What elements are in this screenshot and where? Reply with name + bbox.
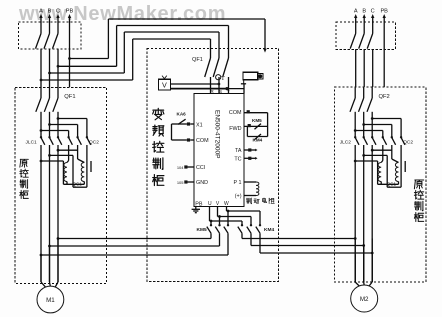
svg-text:FWD: FWD (229, 126, 241, 132)
svg-text:PB: PB (380, 9, 388, 15)
svg-text:PB: PB (195, 201, 203, 207)
svg-text:104: 104 (177, 165, 184, 170)
svg-text:GND: GND (196, 180, 208, 186)
svg-text:M2: M2 (360, 296, 369, 303)
svg-text:T: T (221, 75, 225, 82)
svg-text:M1: M1 (46, 297, 55, 304)
svg-text:QC2: QC2 (403, 140, 413, 146)
svg-text:QC1: QC1 (387, 182, 397, 187)
svg-text:TA: TA (235, 148, 242, 154)
svg-text:CCI: CCI (196, 165, 205, 171)
svg-text:QF1: QF1 (192, 57, 203, 63)
svg-text:C: C (56, 9, 60, 15)
svg-text:105: 105 (177, 180, 184, 185)
svg-text:JLC1: JLC1 (26, 140, 38, 146)
svg-text:C: C (371, 9, 375, 15)
svg-text:W: W (224, 201, 229, 207)
svg-text:QF1: QF1 (64, 94, 75, 100)
svg-text:A: A (354, 9, 358, 15)
svg-text:B: B (362, 9, 366, 15)
svg-text:KM4: KM4 (253, 138, 263, 143)
svg-text:QC1: QC1 (73, 182, 83, 187)
svg-text:B: B (48, 9, 52, 15)
svg-text:(+): (+) (235, 194, 242, 200)
svg-text:COM: COM (229, 110, 242, 116)
svg-text:KA6: KA6 (177, 111, 187, 116)
svg-text:KM5: KM5 (252, 118, 262, 123)
svg-text:X1: X1 (196, 122, 203, 128)
svg-text:EN500-4T2000P: EN500-4T2000P (213, 110, 220, 158)
svg-text:KM5: KM5 (197, 227, 207, 233)
svg-text:A: A (39, 9, 43, 15)
svg-text:V: V (162, 81, 167, 90)
svg-text:KM4: KM4 (264, 227, 274, 233)
svg-text:U: U (208, 201, 212, 207)
svg-text:P 1: P 1 (234, 180, 242, 186)
svg-text:QF2: QF2 (379, 94, 390, 100)
svg-text:JLC2: JLC2 (340, 140, 352, 146)
svg-text:PB: PB (66, 9, 74, 15)
svg-text:COM: COM (196, 138, 209, 144)
svg-text:TC: TC (234, 156, 241, 162)
svg-text:QC2: QC2 (89, 140, 99, 146)
